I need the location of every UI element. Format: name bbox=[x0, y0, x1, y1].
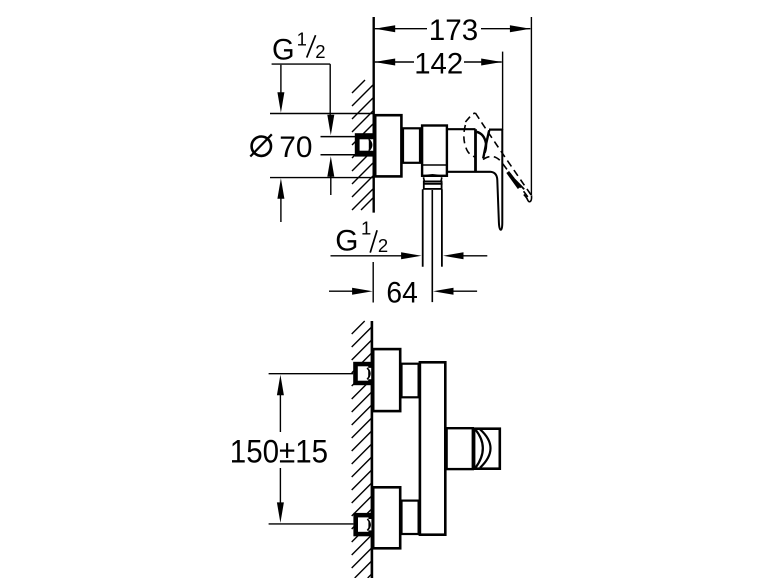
lower neck (bottom view) bbox=[402, 501, 419, 534]
dimension 142 bbox=[375, 47, 502, 80]
label D70 bbox=[250, 131, 312, 164]
cartridge housing (bottom view) bbox=[447, 428, 473, 469]
wall hatching (top view) bbox=[352, 80, 374, 210]
svg-text:G: G bbox=[335, 224, 358, 257]
neck (top view) bbox=[403, 128, 420, 163]
internal line cartridge bbox=[421, 164, 447, 166]
mid body section bbox=[447, 129, 491, 172]
handle cone (solid) bbox=[477, 130, 490, 158]
svg-text:1: 1 bbox=[361, 218, 371, 239]
body plate (bottom view) bbox=[420, 362, 445, 534]
svg-text:173: 173 bbox=[429, 14, 478, 47]
upper neck (bottom view) bbox=[402, 364, 419, 398]
svg-text:2: 2 bbox=[315, 41, 325, 62]
lever blade (solid, hanging) bbox=[491, 129, 503, 230]
svg-text:150±15: 150±15 bbox=[230, 433, 328, 470]
dashed tip hook bbox=[524, 195, 532, 202]
counterpart arrow (up to pipe bottom) bbox=[327, 156, 334, 195]
dimension D70: extension lines bbox=[270, 113, 374, 115]
label G 1/2 (upper) bbox=[272, 29, 331, 67]
knob (bottom view) bbox=[474, 429, 500, 469]
svg-text:142: 142 bbox=[414, 47, 463, 80]
wall union square (top view) bbox=[355, 133, 373, 156]
shower outlet arc bbox=[423, 175, 441, 177]
upper union square (bottom view) bbox=[353, 362, 371, 385]
dimension 173 bbox=[375, 14, 531, 47]
leader arrow G1/2 lower (points right at hose) bbox=[331, 252, 422, 259]
supply pipe in wall (top view) bbox=[321, 136, 357, 138]
outlet nut bbox=[423, 177, 442, 181]
dashed thick blade edge bbox=[508, 172, 520, 188]
extension line 173 bbox=[530, 17, 532, 195]
D70 outside arrow top bbox=[277, 65, 284, 113]
extension line 142 bbox=[502, 52, 504, 130]
wall hatching (bottom view) bbox=[352, 321, 372, 578]
svg-text:64: 64 bbox=[386, 276, 417, 309]
wall face line (top view) bbox=[373, 17, 375, 213]
leader arrow G1/2 upper (down to pipe top) bbox=[327, 64, 334, 135]
counterpart arrow (points left at hose) bbox=[443, 252, 487, 259]
lower union square (bottom view) bbox=[353, 513, 371, 536]
D70 outside arrow bottom bbox=[277, 178, 284, 222]
hose lines bbox=[422, 189, 424, 266]
svg-text:2: 2 bbox=[378, 235, 388, 256]
hose center line bbox=[431, 190, 433, 302]
svg-text:1: 1 bbox=[297, 29, 307, 50]
handle base (top view) bbox=[489, 129, 502, 131]
label G 1/2 (lower) bbox=[335, 218, 388, 258]
escutcheon flange (top view) bbox=[375, 115, 401, 176]
lower escutcheon (bottom view) bbox=[373, 487, 400, 548]
dimension 150+-15 bbox=[230, 374, 354, 524]
wall face line (bottom view) bbox=[371, 321, 374, 578]
svg-text:70: 70 bbox=[279, 131, 312, 164]
dashed handle raised: knob bbox=[464, 113, 532, 200]
dimension 64 bbox=[329, 262, 477, 309]
cartridge body (top view) bbox=[422, 126, 447, 176]
svg-text:G: G bbox=[272, 34, 295, 67]
upper escutcheon (bottom view) bbox=[373, 349, 400, 411]
